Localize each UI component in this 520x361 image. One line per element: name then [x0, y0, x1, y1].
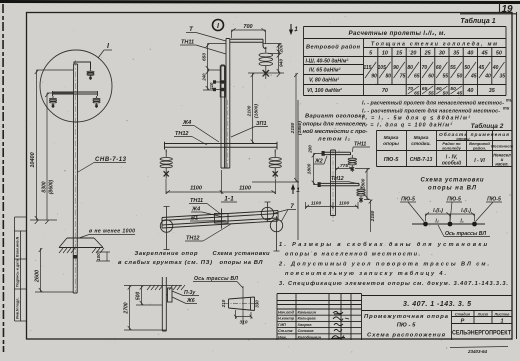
svg-text:летом l₂: летом l₂: [317, 137, 351, 143]
dim 2100 (1800): [250, 73, 258, 144]
variant dim 775: [336, 167, 353, 171]
svg-text:l₁(l₂): l₁(l₂): [433, 208, 443, 214]
left insulator (detail): [49, 96, 56, 108]
svg-text:Ж2: Ж2: [314, 159, 323, 165]
mini plan centerline: [242, 286, 244, 325]
svg-text:45: 45: [478, 65, 485, 71]
ground mound: [59, 238, 103, 248]
svg-text:2150: 2150: [290, 122, 296, 134]
svg-text:опоры в населенной ме: опоры в населенной местности.: [285, 251, 420, 258]
right insulator string: [269, 153, 281, 179]
svg-text:2100: 2100: [247, 105, 253, 117]
svg-text:55: 55: [428, 91, 434, 97]
svg-text:Ж4: Ж4: [182, 120, 191, 126]
svg-text:1: 1: [500, 319, 503, 325]
svg-text:ПЮ-5: ПЮ-5: [401, 197, 415, 203]
svg-text:19: 19: [501, 4, 513, 15]
svg-text:70: 70: [382, 88, 388, 94]
svg-text:Марка: Марка: [414, 135, 429, 141]
svg-text:Схема установки: Схема установки: [213, 251, 270, 257]
svg-text:Местност: Местност: [491, 144, 513, 149]
svg-text:60: 60: [436, 65, 442, 71]
section mark 1 (top): [290, 24, 293, 34]
svg-text:45: 45: [470, 74, 477, 80]
svg-text:3. 407. 1 -143. 3. 5: 3. 407. 1 -143. 3. 5: [403, 301, 471, 308]
svg-text:2600: 2600: [35, 270, 41, 283]
svg-text:55: 55: [450, 65, 456, 71]
svg-text:940: 940: [279, 59, 285, 67]
svg-text:l₂ - расчетный пролет для насе: l₂ - расчетный пролет для населенной мес…: [362, 108, 500, 115]
svg-text:Р: Р: [461, 319, 465, 325]
svg-text:40: 40: [466, 51, 473, 57]
svg-text:район.: район.: [472, 146, 486, 151]
svg-text:Ветровой район: Ветровой район: [306, 44, 361, 51]
scan left paper edge: [2, 4, 5, 352]
svg-text:45: 45: [456, 91, 463, 97]
svg-text:25: 25: [424, 51, 432, 57]
svg-text:Закрепление опор: Закрепление опор: [135, 251, 198, 257]
1-1 right eye circles + pins: [261, 202, 282, 251]
svg-text:3. Спецификацию элементов: 3. Спецификацию элементов опоры см. доку…: [279, 280, 508, 287]
svg-text:в слабых грунтах (см. ПЗ): в слабых грунтах (см. ПЗ): [118, 259, 212, 266]
scan top edge: [0, 2, 520, 3]
svg-text:Инв.N подл.: Инв.N подл.: [16, 298, 20, 319]
svg-text:10400: 10400: [30, 152, 36, 167]
scan speckle noise: [337, 21, 340, 24]
svg-text:насел.: насел.: [495, 162, 508, 167]
svg-text:35: 35: [453, 51, 460, 57]
pole small collar mark: [73, 255, 78, 259]
pole (stand CHB-7-13) left view: [73, 60, 77, 293]
svg-text:10: 10: [382, 51, 388, 57]
svg-text:особый: особый: [442, 160, 461, 167]
svg-text:опоры на ВЛ: опоры на ВЛ: [428, 186, 477, 192]
svg-text:ЗП1: ЗП1: [256, 121, 267, 127]
schema pole dots: [423, 222, 428, 227]
1-1 rails (crossarm channels from above): [162, 211, 278, 229]
svg-text:В1: В1: [191, 216, 198, 222]
svg-text:опоры для ненаселен-: опоры для ненаселен-: [303, 122, 368, 128]
Table 1 fraction values rows 1-3: [365, 62, 376, 78]
ground hatching: [59, 248, 104, 253]
svg-text:Нач.отд: Нач.отд: [278, 311, 295, 315]
anchoring drawing: pole: [162, 277, 166, 331]
archive mark under frame: [450, 347, 508, 348]
dim 500: [136, 286, 162, 306]
svg-text:775: 775: [340, 163, 348, 169]
svg-text:80: 80: [386, 74, 392, 80]
svg-text:1: 1: [294, 26, 298, 33]
svg-text:105: 105: [378, 65, 387, 71]
1-1 left eye circle + pin: [160, 207, 172, 250]
svg-text:80: 80: [407, 65, 413, 71]
svg-text:65: 65: [414, 91, 420, 97]
svg-text:ти: ти: [503, 106, 510, 111]
title block grid: [277, 294, 512, 341]
svg-text:1100: 1100: [311, 201, 322, 207]
svg-text:200: 200: [279, 44, 285, 53]
svg-text:75: 75: [400, 74, 406, 80]
svg-text:55: 55: [443, 74, 449, 80]
detail circle I: [40, 50, 112, 122]
svg-text:90: 90: [371, 74, 377, 80]
svg-text:100: 100: [96, 253, 101, 261]
crossarm in detail circle: [53, 91, 98, 96]
svg-text:l₂: l₂: [435, 219, 438, 225]
variant dim 2150: [369, 200, 373, 233]
svg-text:1800: 1800: [307, 163, 313, 174]
svg-text:2150: 2150: [370, 210, 376, 222]
svg-text:50: 50: [450, 86, 456, 92]
variant lower crossarm (to right): [320, 183, 360, 186]
svg-text:40: 40: [492, 65, 499, 71]
variant dim 1100 1100: [306, 202, 359, 209]
svg-text:700: 700: [243, 24, 252, 30]
svg-text:ПЮ-5: ПЮ-5: [487, 197, 501, 203]
svg-text:45: 45: [481, 51, 489, 57]
svg-text:Хворов: Хворов: [297, 323, 313, 327]
svg-text:(1800): (1800): [254, 104, 260, 118]
svg-text:200: 200: [308, 145, 313, 154]
svg-text:1100: 1100: [190, 186, 202, 192]
signatures squiggles: [331, 312, 349, 339]
svg-text:Схема установки: Схема установки: [421, 178, 484, 184]
svg-text:ПЮ-5: ПЮ-5: [447, 197, 461, 203]
anchor plate P-3u: [166, 288, 172, 302]
right insulator (detail): [93, 96, 100, 108]
clamp joint with bolts: [214, 66, 227, 97]
svg-text:l₃ = l₁ - 5м для q ≤ 80даН/м: l₃ = l₁ - 5м для q ≤ 80даН/м²: [362, 116, 470, 122]
svg-text:50: 50: [464, 65, 470, 71]
svg-text:30: 30: [439, 51, 445, 57]
svg-text:Листов: Листов: [494, 313, 511, 317]
dims 650/240/110 left of pole: [203, 44, 226, 91]
left stamp column boxes: [15, 217, 27, 321]
pole top crook + small insulator: [74, 62, 91, 69]
svg-text:2. Допустимый угол пов: 2. Допустимый угол поворота трассы ВЛ см…: [278, 261, 489, 268]
svg-text:115: 115: [363, 65, 371, 71]
svg-text:20: 20: [409, 51, 416, 57]
dims 200 / 940 right of insulator: [248, 44, 284, 78]
svg-text:Кольцова: Кольцова: [298, 317, 316, 321]
svg-text:Марка: Марка: [384, 135, 399, 141]
dim 10400: [30, 70, 73, 224]
svg-text:IV, 65 даН/м²: IV, 65 даН/м²: [309, 68, 341, 74]
detail label I with leader: [98, 50, 112, 58]
svg-text:60: 60: [428, 74, 434, 80]
svg-text:П-3у: П-3у: [184, 290, 196, 296]
anchoring ground hatch: [147, 285, 185, 290]
schema span dims: [426, 212, 475, 221]
svg-text:50: 50: [443, 91, 449, 97]
svg-text:ГИП: ГИП: [278, 323, 286, 327]
dim 1100 1100 below crossarm: [166, 170, 276, 194]
svg-text:90: 90: [393, 65, 399, 71]
svg-text:ти: ти: [506, 98, 513, 103]
dim 2600: [35, 248, 73, 292]
svg-text:ТН11: ТН11: [181, 40, 194, 46]
svg-text:65: 65: [414, 74, 420, 80]
svg-text:310: 310: [239, 320, 247, 326]
svg-text:Таблица 2: Таблица 2: [471, 122, 504, 130]
svg-text:ТН12: ТН12: [186, 236, 199, 242]
svg-text:70: 70: [422, 65, 428, 71]
svg-text:1-1: 1-1: [224, 196, 234, 203]
svg-text:2700: 2700: [124, 302, 130, 314]
svg-text:Ст.инж: Ст.инж: [278, 329, 293, 333]
svg-text:опоры на ВЛ: опоры на ВЛ: [220, 260, 264, 266]
svg-text:35: 35: [489, 88, 496, 94]
svg-text:23403-64: 23403-64: [467, 349, 488, 354]
svg-text:ПЮ-5: ПЮ-5: [384, 157, 400, 163]
variant dim 1800 (right): [355, 169, 370, 200]
svg-text:Взам.инв.N: Взам.инв.N: [16, 236, 20, 257]
variant lower insulator: [357, 186, 365, 203]
svg-text:Вариант оголовка: Вариант оголовка: [305, 114, 366, 120]
top insulator string: [259, 47, 273, 79]
svg-text:210: 210: [221, 299, 226, 308]
svg-text:60: 60: [436, 86, 442, 92]
dim 100 (mound height): [96, 252, 110, 261]
svg-text:Колобушкин: Колобушкин: [298, 336, 322, 340]
svg-text:ТН11: ТН11: [354, 142, 366, 148]
variant top crossarm (to right): [324, 152, 351, 155]
circled detail mark I: [213, 20, 224, 31]
svg-text:35: 35: [500, 74, 506, 80]
svg-text:СЕЛЬЭНЕРГОПРОЕКТ: СЕЛЬЭНЕРГОПРОЕКТ: [452, 331, 511, 337]
svg-text:15: 15: [396, 51, 403, 57]
page number box: [460, 3, 517, 14]
svg-text:240: 240: [202, 73, 207, 82]
svg-text:ТН11: ТН11: [190, 198, 203, 204]
svg-text:СНВ-7-13: СНВ-7-13: [95, 157, 127, 163]
svg-text:гололеду: гололеду: [442, 146, 462, 151]
svg-text:ТН12: ТН12: [175, 131, 188, 137]
svg-text:70: 70: [408, 86, 414, 92]
svg-text:110: 110: [209, 82, 214, 89]
svg-text:Толщина стенки гололеда, мм: Толщина стенки гололеда, мм: [371, 42, 497, 48]
Table 1 grid: [304, 27, 507, 96]
section mark 1 (bottom): [292, 186, 295, 195]
svg-text:l₁ - расчетный пролет для нена: l₁ - расчетный пролет для ненаселенной м…: [362, 100, 504, 107]
svg-text:40: 40: [484, 74, 491, 80]
svg-text:Расчетные пролеты l₁/l₂, м: Расчетные пролеты l₁/l₂, м.: [349, 30, 446, 37]
svg-text:1100: 1100: [339, 201, 350, 207]
schema line: [412, 223, 485, 225]
right paper edge: [516, 12, 518, 339]
svg-text:40: 40: [466, 88, 473, 94]
1-1 pole clamp (center): [215, 209, 229, 229]
svg-text:500: 500: [136, 292, 142, 301]
svg-text:ø не менее 1000: ø не менее 1000: [89, 229, 135, 235]
vertical divider: [297, 100, 299, 240]
svg-text:V, 80 даН/м²: V, 80 даН/м²: [309, 78, 339, 84]
middle pole (narrow top part): [221, 39, 230, 169]
left insulator string: [160, 153, 172, 179]
svg-text:СНВ-7-13: СНВ-7-13: [410, 157, 433, 163]
svg-text:l₁(l₃): l₁(l₃): [461, 208, 471, 214]
svg-text:1800: 1800: [361, 178, 367, 189]
main crossarm: [165, 142, 278, 153]
svg-text:Лист: Лист: [477, 313, 489, 317]
svg-text:50: 50: [457, 74, 463, 80]
svg-text:опоры: опоры: [383, 142, 400, 147]
dim 700: [232, 28, 266, 44]
svg-text:650: 650: [202, 53, 208, 61]
dim 2150 (1850): [252, 73, 299, 182]
svg-text:ПЮ - 5: ПЮ - 5: [397, 323, 416, 329]
variant pole: [331, 150, 336, 222]
dim 8300 (8600): [45, 93, 73, 224]
svg-text:Промежуточная опора: Промежуточная опора: [364, 314, 449, 320]
svg-text:8300: 8300: [42, 181, 48, 192]
svg-text:I-Ш, 40-50 даН/м²: I-Ш, 40-50 даН/м²: [306, 59, 349, 65]
Table 2 grid: [377, 131, 513, 167]
svg-text:Ж4: Ж4: [191, 207, 200, 213]
svg-text:1100: 1100: [239, 186, 251, 192]
svg-text:330: 330: [255, 300, 260, 308]
svg-text:I - VI: I - VI: [474, 158, 485, 164]
svg-text:VI, 100 даН/м²: VI, 100 даН/м²: [307, 88, 342, 94]
svg-text:Н.контр: Н.контр: [278, 317, 295, 321]
svg-text:Камышин: Камышин: [298, 311, 317, 315]
middle pole wide lower part: [221, 65, 230, 168]
variant upper insulator: [348, 155, 356, 172]
svg-text:Ось трассы ВЛ: Ось трассы ВЛ: [194, 276, 238, 282]
svg-text:Область применения: Область применения: [439, 131, 509, 138]
top insulator (detail): [87, 69, 94, 80]
svg-text:65: 65: [422, 86, 428, 92]
svg-text:стойки.: стойки.: [411, 140, 430, 147]
svg-text:l₃ = l₁ для q = 100 даН/м²: l₃ = l₁ для q = 100 даН/м²: [362, 123, 452, 129]
top crossarm: [230, 39, 266, 48]
svg-text:Подпись и дата: Подпись и дата: [16, 258, 20, 287]
mini plan pole footprint: [224, 297, 259, 311]
svg-text:Инж.: Инж.: [278, 336, 287, 340]
svg-text:Ж6: Ж6: [186, 298, 195, 304]
variant dim 1800 (left): [312, 153, 323, 184]
svg-text:l₂: l₂: [460, 219, 463, 225]
svg-text:Ось трассы ВЛ: Ось трассы ВЛ: [445, 231, 486, 237]
svg-text:50: 50: [496, 51, 502, 57]
svg-text:Схема расположения: Схема расположения: [367, 333, 446, 339]
dim 2700: [124, 286, 166, 331]
svg-text:Таблица 1: Таблица 1: [460, 17, 495, 25]
svg-text:Сонкина: Сонкина: [298, 329, 314, 333]
svg-text:Стадия: Стадия: [455, 313, 471, 317]
svg-text:(8600): (8600): [49, 179, 55, 194]
